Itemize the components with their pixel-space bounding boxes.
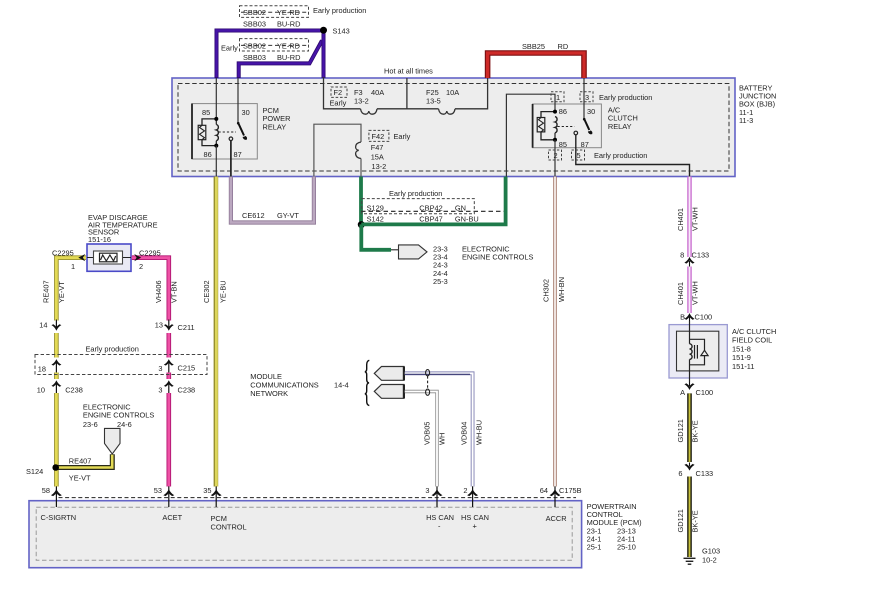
wire CE302 YE-BU (214, 177, 219, 487)
svg-text:53: 53 (154, 486, 162, 495)
label box F2 early (331, 87, 347, 97)
field coil winding (690, 344, 693, 360)
relay resistor (202, 119, 216, 146)
dashed pin box 1 (551, 92, 564, 102)
svg-text:VT-BN: VT-BN (170, 281, 179, 303)
wire CH401 VT-WH upper segment (687, 177, 692, 258)
svg-text:13-5: 13-5 (426, 96, 441, 105)
svg-text:85: 85 (202, 108, 210, 117)
svg-text:8: 8 (680, 250, 684, 259)
svg-text:C211: C211 (178, 323, 195, 332)
svg-text:10: 10 (37, 385, 45, 394)
wire pin 85 exit (554, 140, 556, 177)
svg-text:YE-VT: YE-VT (69, 473, 91, 482)
dashed pin box 5 (572, 150, 585, 160)
svg-text:CE302: CE302 (202, 280, 211, 303)
svg-text:+: + (473, 522, 477, 531)
svg-text:87: 87 (234, 150, 242, 159)
svg-text:10A: 10A (446, 88, 459, 97)
svg-text:13-2: 13-2 (354, 96, 369, 105)
wire pin 87 exit jog to CH401 (576, 135, 690, 177)
svg-text:CBP47: CBP47 (419, 215, 442, 224)
svg-text:WH: WH (438, 433, 447, 445)
connector C175B dashed line (59, 497, 577, 499)
wire S129 CBP42 GN dashed early (361, 210, 506, 212)
svg-text:13-2: 13-2 (372, 162, 387, 171)
svg-text:64: 64 (540, 486, 548, 495)
wire GD121 BK-YE lower (687, 477, 692, 558)
svg-text:BK-YE: BK-YE (691, 420, 700, 442)
wire CH302 WH-BN from relay pin 85 to PCM pin 64 (553, 177, 556, 487)
svg-text:G103: G103 (702, 547, 720, 556)
wire SBB03 BU-RD (second feed to PCM power relay pin 30) (239, 41, 322, 79)
svg-text:BU-RD: BU-RD (277, 53, 300, 62)
svg-text:NETWORK: NETWORK (250, 389, 288, 398)
wire green feed inside BJB to pin 86 (506, 94, 555, 176)
connector C238 pin 10 (53, 379, 60, 393)
inline connector C133 pin 8 (685, 258, 694, 264)
svg-text:A: A (680, 388, 685, 397)
svg-text:ENGINE CONTROLS: ENGINE CONTROLS (462, 253, 534, 262)
svg-text:C133: C133 (692, 250, 710, 259)
wire VH406 VT-BN (132, 258, 169, 487)
svg-text:CONTROL: CONTROL (211, 523, 247, 532)
wire pin 85 feed (215, 78, 217, 119)
powertrain control module PCM box (29, 501, 642, 568)
svg-text:YE-RD: YE-RD (277, 8, 300, 17)
node S143 (320, 27, 327, 34)
svg-text:CBP42: CBP42 (419, 203, 442, 212)
connector funnel to electronic engine controls (105, 428, 121, 454)
connector arrow HS CAN - (to network) (374, 385, 404, 399)
svg-text:RD: RD (558, 42, 569, 51)
svg-text:2: 2 (463, 486, 467, 495)
svg-text:S142: S142 (367, 215, 384, 224)
svg-text:1: 1 (71, 262, 75, 271)
svg-text:Early: Early (330, 99, 347, 108)
svg-text:SBB03: SBB03 (243, 20, 266, 29)
A/C clutch relay U2 (506, 78, 689, 177)
wire RE407 branch from S124 (56, 454, 113, 467)
svg-text:Early: Early (221, 44, 238, 53)
svg-text:86: 86 (559, 107, 567, 116)
svg-text:151-11: 151-11 (732, 362, 754, 371)
svg-text:151-16: 151-16 (88, 235, 111, 244)
PCM pin 3 (436, 486, 438, 507)
connector C238 pin 3 (165, 379, 172, 393)
fuse F47 15A (356, 142, 361, 159)
relay switch blade (584, 119, 589, 131)
pin 87 contact (229, 137, 233, 141)
connector C211 pin 13 (165, 321, 172, 334)
svg-text:3: 3 (158, 385, 162, 394)
relay coil (555, 117, 557, 133)
svg-text:6: 6 (678, 469, 682, 478)
svg-text:14: 14 (39, 321, 47, 330)
svg-text:85: 85 (559, 140, 567, 149)
svg-text:58: 58 (42, 486, 50, 495)
svg-text:C2295: C2295 (52, 248, 74, 257)
svg-text:3: 3 (425, 486, 429, 495)
wire CE612 GY-VT loop (231, 177, 314, 223)
wire RE407 YE-VT (56, 258, 86, 487)
svg-text:WH-BN: WH-BN (557, 277, 566, 302)
label box SBB02 YE-RD early production (upper) (240, 6, 309, 18)
svg-text:F42: F42 (372, 132, 385, 141)
svg-text:GN: GN (455, 203, 466, 212)
svg-text:RELAY: RELAY (608, 122, 632, 131)
svg-text:3: 3 (158, 364, 162, 373)
connector C2295 pin 2 (134, 254, 141, 261)
svg-text:WH-BU: WH-BU (475, 420, 484, 445)
svg-text:BK-YE: BK-YE (691, 510, 700, 532)
connector C2295 pin 1 (78, 254, 85, 261)
dashed pin box 3 (580, 92, 593, 102)
svg-text:GN-BU: GN-BU (455, 215, 479, 224)
svg-text:Early production: Early production (599, 93, 652, 102)
PCM pin 35 (215, 486, 217, 507)
clutch arrow symbol (701, 350, 708, 355)
svg-text:FIELD COIL: FIELD COIL (732, 336, 772, 345)
connector arrow to electronic engine controls (399, 245, 428, 259)
pin 87 contact (574, 131, 578, 135)
svg-text:B: B (680, 312, 685, 321)
wire VDB04 WH-BU (405, 373, 473, 486)
svg-text:Early production: Early production (313, 6, 366, 15)
node S124 (52, 464, 59, 471)
svg-text:ACET: ACET (162, 513, 182, 522)
svg-text:3: 3 (585, 93, 589, 102)
brace lower (365, 383, 369, 406)
dashed actuator link (558, 126, 575, 128)
svg-text:2: 2 (554, 151, 558, 160)
svg-text:BU-RD: BU-RD (277, 20, 300, 29)
svg-text:25-1: 25-1 (587, 543, 602, 552)
relay switch blade (238, 123, 244, 136)
svg-text:35: 35 (203, 486, 211, 495)
inline connector C133 pin 6 (685, 464, 694, 470)
brace upper (365, 360, 369, 383)
svg-text:2: 2 (139, 262, 143, 271)
battery junction box BJB (172, 78, 776, 177)
wire pin 30 feed (583, 78, 585, 120)
svg-text:RELAY: RELAY (263, 122, 287, 131)
svg-text:86: 86 (204, 150, 212, 159)
twisted pair crossover (426, 370, 430, 396)
connector C215 pin 3 (165, 358, 172, 373)
svg-text:ACCR: ACCR (546, 514, 567, 523)
svg-text:C175B: C175B (559, 486, 582, 495)
wire GN-BU branch to electronic engine controls (361, 224, 391, 249)
svg-text:5: 5 (577, 151, 581, 160)
wire from S143 down to fuse F3 (322, 30, 326, 78)
svg-text:11-3: 11-3 (739, 116, 753, 125)
wire pin 87 exit (230, 141, 232, 177)
wire coil to pin 86 exit (215, 146, 217, 177)
fuse bus wire inside BJB (324, 77, 488, 109)
svg-text:25-3: 25-3 (433, 277, 448, 286)
svg-text:151-8: 151-8 (732, 344, 751, 353)
svg-text:CE612: CE612 (242, 211, 265, 220)
inline connector C100 pin B (685, 314, 694, 320)
svg-text:23-6: 23-6 (83, 420, 98, 429)
fuse F3 40A (361, 109, 378, 114)
svg-text:C215: C215 (178, 363, 196, 372)
wire SBB25 RD red jumper from F25 to A/C clutch relay (488, 53, 584, 78)
svg-text:30: 30 (242, 108, 250, 117)
svg-text:CH302: CH302 (542, 279, 551, 302)
svg-text:C238: C238 (65, 385, 83, 394)
svg-text:VDB04: VDB04 (460, 422, 469, 445)
svg-text:87: 87 (581, 140, 589, 149)
relay coil (216, 125, 218, 141)
relay resistor (541, 112, 555, 140)
coil core bars (694, 345, 696, 359)
svg-text:25-10: 25-10 (617, 543, 636, 552)
svg-text:VDB05: VDB05 (423, 422, 432, 445)
PCM pin 58 (55, 486, 57, 507)
dashed actuator link (219, 131, 237, 133)
PCM pin 2 (472, 486, 474, 507)
svg-text:YE-VT: YE-VT (57, 281, 66, 303)
dashed pin box 2 (549, 150, 562, 160)
svg-text:C100: C100 (696, 388, 714, 397)
svg-text:F2: F2 (334, 88, 343, 97)
svg-text:S143: S143 (333, 26, 350, 35)
PCM pin 53 (168, 486, 170, 507)
wire bridge to fuse F47 (314, 124, 361, 176)
wire pin 30 feed (237, 78, 239, 124)
svg-text:S129: S129 (367, 203, 384, 212)
svg-text:18: 18 (38, 364, 46, 373)
connector pin 18 (53, 358, 60, 373)
svg-text:C238: C238 (178, 385, 196, 394)
svg-text:C100: C100 (695, 312, 713, 321)
label box F42 early (369, 130, 389, 141)
clutch branch loop (690, 339, 705, 365)
svg-text:A/C CLUTCH: A/C CLUTCH (732, 327, 776, 336)
svg-text:C133: C133 (696, 469, 714, 478)
svg-text:VT-WH: VT-WH (690, 281, 699, 305)
svg-text:30: 30 (587, 107, 595, 116)
svg-text:15A: 15A (371, 153, 384, 162)
svg-text:24-6: 24-6 (117, 420, 132, 429)
svg-text:RE407: RE407 (69, 456, 92, 465)
svg-text:Early: Early (394, 132, 411, 141)
svg-text:GD121: GD121 (676, 419, 685, 442)
connector arrow HS CAN + (to network) (374, 367, 404, 381)
svg-text:F47: F47 (371, 143, 384, 152)
A/C clutch field coil L1 (669, 321, 776, 382)
svg-text:YE-BU: YE-BU (219, 280, 228, 303)
svg-text:ENGINE CONTROLS: ENGINE CONTROLS (83, 411, 155, 420)
inline connector C100 pin A (685, 384, 694, 390)
svg-text:SBB03: SBB03 (243, 53, 266, 62)
svg-text:151-9: 151-9 (732, 353, 751, 362)
svg-text:CH401: CH401 (676, 282, 685, 305)
node S142 (358, 221, 365, 228)
svg-text:S124: S124 (26, 467, 43, 476)
wire CH401 VT-WH lower segment (687, 267, 692, 314)
wire GD121 BK-YE upper (687, 393, 692, 462)
svg-text:GY-VT: GY-VT (277, 211, 299, 220)
svg-text:SBB02: SBB02 (243, 8, 266, 17)
sensor thermistor element (100, 253, 118, 262)
svg-text:1: 1 (556, 93, 560, 102)
svg-text:13: 13 (155, 321, 163, 330)
svg-text:Early production: Early production (594, 151, 647, 160)
fuse F25 10A (439, 109, 456, 114)
svg-text:C-SIGRTN: C-SIGRTN (41, 513, 77, 522)
ground G103 (684, 547, 721, 565)
wire CBP47 GN-BU vertical from F47 (359, 177, 363, 225)
wire CBP47 GN-BU to A/C relay 86 (361, 177, 505, 225)
svg-text:Early production: Early production (86, 345, 139, 354)
wire VDB05 WH (405, 392, 437, 487)
svg-text:C2295: C2295 (139, 248, 161, 257)
PCM power relay U1 (192, 78, 290, 177)
connector arrow 14 (53, 321, 60, 334)
svg-text:CH401: CH401 (676, 208, 685, 231)
svg-text:VH406: VH406 (154, 280, 163, 303)
svg-text:RE407: RE407 (42, 280, 51, 303)
svg-text:Early production: Early production (389, 189, 442, 198)
svg-text:Hot at all times: Hot at all times (384, 67, 433, 76)
svg-text:14-4: 14-4 (334, 381, 349, 390)
EVAP discharge air temperature sensor (87, 213, 158, 271)
svg-text:GD121: GD121 (676, 509, 685, 532)
svg-text:10-2: 10-2 (702, 556, 717, 565)
wire SBB03 BU-RD (left feed to PCM power relay coil) (217, 31, 323, 79)
PCM pin 64 connector C175B (554, 486, 556, 507)
svg-text:40A: 40A (371, 88, 384, 97)
svg-text:SBB25: SBB25 (522, 42, 545, 51)
svg-text:VT-WH: VT-WH (690, 207, 699, 231)
